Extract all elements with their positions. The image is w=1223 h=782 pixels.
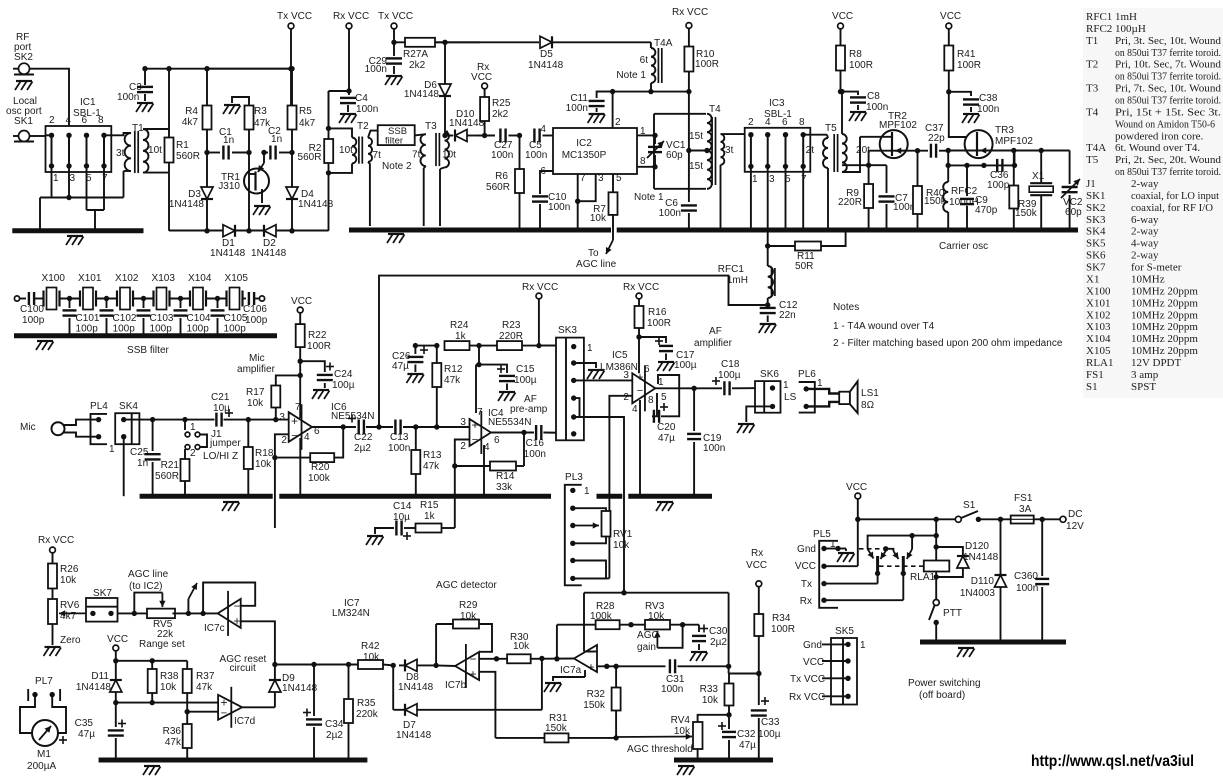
- ground bus agc right: [674, 758, 773, 763]
- svg-text:R24: R24: [450, 320, 469, 331]
- svg-text:1: 1: [584, 486, 590, 497]
- svg-text:X101: X101: [1086, 297, 1110, 309]
- svg-text:SK2: SK2: [14, 52, 33, 63]
- svg-text:100R: 100R: [695, 59, 719, 70]
- ground bus filter: [14, 333, 277, 338]
- svg-text:2-way: 2-way: [1131, 178, 1159, 190]
- ground: [588, 369, 604, 371]
- svg-text:560R: 560R: [155, 471, 179, 482]
- ground: [16, 80, 32, 82]
- svg-text:5: 5: [661, 392, 667, 403]
- svg-text:C8: C8: [867, 91, 880, 102]
- svg-text:47µ: 47µ: [392, 361, 409, 372]
- svg-text:D110: D110: [971, 576, 995, 587]
- svg-text:3t: 3t: [116, 148, 125, 159]
- svg-text:33k: 33k: [496, 482, 513, 493]
- svg-text:100n: 100n: [1016, 583, 1038, 594]
- svg-text:IC3: IC3: [769, 98, 785, 109]
- svg-text:SK4: SK4: [119, 401, 138, 412]
- wire IC3 pin1 to bus: [750, 166, 752, 228]
- ground: [658, 361, 674, 363]
- svg-text:C15: C15: [516, 364, 535, 375]
- svg-text:100R: 100R: [771, 624, 795, 635]
- filter block SSB filter 1: [378, 125, 415, 145]
- wire T4 sec bottom: [720, 165, 722, 229]
- svg-text:IC5: IC5: [612, 350, 628, 361]
- svg-text:100n: 100n: [661, 684, 683, 695]
- svg-text:J1: J1: [1086, 178, 1096, 190]
- svg-text:10k: 10k: [590, 213, 607, 224]
- svg-text:AGC detector: AGC detector: [436, 580, 497, 591]
- svg-text:2: 2: [49, 115, 55, 126]
- svg-text:6: 6: [782, 117, 788, 128]
- svg-text:R12: R12: [444, 364, 463, 375]
- wire AF loop to RFC1: [379, 276, 765, 427]
- wire T1 to TR1 stage: [168, 69, 170, 129]
- ground: [67, 235, 83, 237]
- svg-text:AF: AF: [709, 326, 722, 337]
- svg-text:R15: R15: [420, 500, 439, 511]
- svg-text:gain: gain: [637, 642, 656, 653]
- svg-text:100n: 100n: [659, 208, 681, 219]
- svg-text:10k: 10k: [613, 540, 630, 551]
- svg-text:VCC: VCC: [291, 296, 312, 307]
- svg-text:100n: 100n: [977, 104, 999, 115]
- ground: [254, 205, 270, 207]
- svg-text:1n: 1n: [271, 134, 282, 145]
- svg-text:3: 3: [279, 412, 285, 423]
- svg-text:MPF102: MPF102: [879, 120, 917, 131]
- wire R42 row: [275, 664, 358, 666]
- svg-text:8: 8: [98, 115, 104, 126]
- svg-text:47k: 47k: [196, 682, 213, 693]
- svg-text:100k: 100k: [308, 473, 331, 484]
- svg-text:SK5: SK5: [1086, 238, 1106, 250]
- svg-text:VCC: VCC: [803, 657, 824, 668]
- arrow AGC threshold: [616, 736, 692, 739]
- svg-text:AGC line: AGC line: [576, 259, 617, 270]
- wire IC5 pin2 input: [609, 396, 632, 579]
- svg-text:47k: 47k: [423, 461, 440, 472]
- svg-text:X105: X105: [225, 273, 249, 284]
- wire SK3 pin3 to IC5: [574, 379, 633, 381]
- svg-text:amplifier: amplifier: [237, 364, 276, 375]
- ground bus left: [12, 228, 143, 233]
- svg-text:(to IC2): (to IC2): [129, 581, 163, 592]
- svg-text:RFC1: RFC1: [1086, 11, 1112, 23]
- svg-text:12V DPDT: 12V DPDT: [1131, 357, 1182, 369]
- wire SK3 pin2 gnd: [574, 363, 596, 368]
- svg-text:100µ: 100µ: [718, 370, 741, 381]
- svg-text:C30: C30: [709, 626, 728, 637]
- svg-text:100p: 100p: [187, 324, 210, 335]
- svg-text:560R: 560R: [298, 152, 322, 163]
- wire IC5 output: [655, 387, 722, 389]
- ground: [407, 373, 423, 375]
- ground: [137, 102, 153, 104]
- svg-text:SK4: SK4: [1086, 226, 1106, 238]
- svg-text:VCC: VCC: [846, 482, 867, 493]
- svg-text:T4: T4: [709, 104, 721, 115]
- resistor R1 560R: [143, 128, 169, 130]
- svg-text:coaxial, for LO input: coaxial, for LO input: [1131, 190, 1219, 202]
- svg-text:100n: 100n: [893, 202, 915, 213]
- svg-text:100p: 100p: [113, 324, 136, 335]
- svg-text:100R: 100R: [849, 60, 873, 71]
- svg-text:−: −: [637, 385, 643, 397]
- svg-text:47k: 47k: [444, 375, 461, 386]
- svg-text:C102: C102: [113, 313, 137, 324]
- svg-text:2: 2: [281, 435, 287, 446]
- wire TR2 gate: [860, 136, 892, 138]
- svg-text:VCC: VCC: [795, 561, 816, 572]
- svg-text:3t: 3t: [725, 145, 734, 156]
- wire mixer bias rail: [204, 66, 209, 71]
- svg-text:150k: 150k: [1015, 208, 1038, 219]
- svg-text:coaxial, for RF I/O: coaxial, for RF I/O: [1131, 202, 1213, 214]
- ground: [850, 111, 866, 113]
- svg-text:7: 7: [477, 407, 483, 418]
- svg-text:150k: 150k: [583, 700, 606, 711]
- svg-text:3: 3: [460, 417, 466, 428]
- wire SK3 pin4-5 link: [574, 398, 580, 417]
- wire PL5 Rx: [824, 599, 903, 601]
- wire VCC rail to R24: [415, 345, 436, 347]
- op-amp IC6 NE5534N: [289, 412, 312, 442]
- svg-text:X102: X102: [115, 273, 139, 284]
- wire T5 sec top: [841, 92, 843, 134]
- svg-text:1N4148: 1N4148: [398, 682, 434, 693]
- ground: [367, 535, 383, 537]
- DC 12V terminal: [1060, 516, 1066, 522]
- svg-text:100n: 100n: [117, 92, 139, 103]
- svg-text:Tx VCC: Tx VCC: [790, 674, 825, 685]
- svg-text:X103: X103: [152, 273, 176, 284]
- svg-text:2: 2: [190, 448, 196, 459]
- svg-text:X104: X104: [1086, 333, 1111, 345]
- svg-text:R3: R3: [254, 106, 267, 117]
- svg-text:PL5: PL5: [813, 529, 831, 540]
- svg-text:1N4148: 1N4148: [251, 248, 287, 259]
- svg-text:PL7: PL7: [35, 676, 53, 687]
- svg-text:RFC2: RFC2: [1086, 23, 1112, 35]
- relay contacts RLA1: [868, 536, 937, 549]
- wire RV1 top: [573, 508, 606, 511]
- svg-text:R21: R21: [161, 460, 180, 471]
- svg-text:100n: 100n: [566, 103, 588, 114]
- svg-text:Rx: Rx: [800, 596, 812, 607]
- ground: [388, 233, 404, 235]
- wire RV3 wiper: [656, 631, 658, 648]
- svg-text:1: 1: [783, 380, 789, 391]
- svg-text:J310: J310: [218, 181, 240, 192]
- svg-text:100n: 100n: [365, 64, 387, 75]
- svg-text:C33: C33: [761, 717, 780, 728]
- svg-text:560R: 560R: [176, 151, 200, 162]
- wire AGC loop top: [584, 592, 729, 594]
- svg-text:C14: C14: [393, 501, 412, 512]
- svg-text:100n: 100n: [524, 449, 546, 460]
- ground: [37, 340, 53, 342]
- svg-text:SK3: SK3: [558, 325, 577, 336]
- ground bus AF: [597, 494, 623, 499]
- svg-text:+: +: [587, 660, 594, 674]
- svg-text:X101: X101: [78, 273, 102, 284]
- wire top rail to TxVCC: [145, 68, 291, 70]
- wire IC2 pin1: [637, 134, 655, 136]
- wire T5 sec bottom to TR2 gate: [842, 137, 860, 172]
- svg-text:C106: C106: [243, 304, 267, 315]
- wire top rail: [597, 91, 689, 93]
- svg-text:IC7d: IC7d: [234, 716, 255, 727]
- wire IC3 pin8 to T5: [803, 134, 827, 136]
- svg-text:R6: R6: [495, 171, 508, 182]
- svg-text:2k2: 2k2: [492, 109, 509, 120]
- svg-text:8: 8: [640, 156, 646, 167]
- svg-text:R4: R4: [185, 106, 198, 117]
- ground bus mic: [140, 494, 273, 499]
- svg-text:VCC: VCC: [471, 72, 492, 83]
- ground: [340, 113, 356, 115]
- svg-text:filter: filter: [385, 136, 403, 147]
- svg-text:IC7c: IC7c: [204, 623, 225, 634]
- svg-text:Note 1: Note 1: [634, 192, 664, 203]
- svg-text:R1: R1: [176, 140, 189, 151]
- svg-text:15t: 15t: [689, 131, 703, 142]
- svg-text:1: 1: [53, 173, 59, 184]
- wire IC4 out: [491, 432, 534, 434]
- svg-text:100p: 100p: [76, 324, 99, 335]
- svg-text:−: −: [469, 652, 476, 666]
- svg-text:100p: 100p: [245, 315, 268, 326]
- ground: [223, 501, 239, 503]
- svg-text:1: 1: [190, 422, 196, 433]
- svg-text:RLA1: RLA1: [910, 572, 936, 583]
- svg-text:R20: R20: [311, 462, 330, 473]
- svg-text:VCC: VCC: [832, 11, 853, 22]
- svg-text:NE5534N: NE5534N: [488, 417, 532, 428]
- svg-text:−: −: [233, 599, 240, 613]
- svg-text:1N4148: 1N4148: [404, 89, 440, 100]
- svg-text:100µ: 100µ: [674, 360, 697, 371]
- svg-text:2 - Filter matching based upon: 2 - Filter matching based upon 200 ohm i…: [833, 338, 1063, 349]
- svg-text:Notes: Notes: [833, 302, 859, 313]
- svg-text:C103: C103: [150, 313, 174, 324]
- svg-text:10k: 10k: [702, 695, 719, 706]
- svg-text:R41: R41: [957, 49, 976, 60]
- svg-text:4: 4: [304, 432, 310, 443]
- svg-text:LS1: LS1: [861, 388, 879, 399]
- svg-text:Rx VCC: Rx VCC: [789, 692, 825, 703]
- svg-text:amplifier: amplifier: [694, 338, 733, 349]
- svg-text:C4: C4: [355, 93, 368, 104]
- svg-text:4: 4: [540, 124, 546, 135]
- svg-text:10MHz 20ppm: 10MHz 20ppm: [1131, 345, 1198, 357]
- svg-text:5: 5: [616, 173, 622, 184]
- svg-text:100n: 100n: [388, 443, 410, 454]
- svg-text:+: +: [636, 370, 643, 384]
- svg-text:2: 2: [748, 117, 754, 128]
- ground: [963, 113, 979, 115]
- svg-text:Tx VCC: Tx VCC: [277, 11, 312, 22]
- svg-text:T2: T2: [357, 121, 369, 132]
- ground bus main: [349, 228, 611, 233]
- svg-text:1N4148: 1N4148: [76, 682, 112, 693]
- svg-text:X102: X102: [1086, 309, 1110, 321]
- wire R23 junction down: [478, 346, 480, 365]
- svg-text:T3: T3: [1086, 83, 1099, 95]
- svg-text:10k: 10k: [247, 398, 264, 409]
- wire PL5 gnd: [824, 548, 838, 550]
- svg-text:R36: R36: [163, 726, 182, 737]
- svg-text:X1: X1: [1032, 171, 1045, 182]
- wire IC7c + input: [241, 621, 275, 664]
- svg-text:1: 1: [817, 378, 823, 389]
- svg-text:C34: C34: [325, 719, 344, 730]
- svg-text:R35: R35: [357, 698, 376, 709]
- svg-text:1: 1: [109, 444, 115, 455]
- wire to IC7d + input: [116, 702, 218, 704]
- svg-text:1: 1: [860, 640, 866, 651]
- ground: [45, 646, 61, 648]
- wire IC6 pin7: [299, 375, 301, 418]
- svg-text:T3: T3: [425, 121, 437, 132]
- svg-text:8: 8: [648, 395, 654, 406]
- svg-text:1N4148: 1N4148: [396, 730, 432, 741]
- svg-text:Rx VCC: Rx VCC: [333, 11, 369, 22]
- wire TR3 source row: [948, 150, 1069, 152]
- svg-text:VCC: VCC: [107, 634, 128, 645]
- svg-text:4k7: 4k7: [182, 117, 199, 128]
- wire IC2 pins 7,3 gnd: [578, 174, 596, 201]
- svg-text:RV1: RV1: [613, 529, 633, 540]
- svg-text:R25: R25: [492, 98, 511, 109]
- wire coil to PTT: [935, 572, 937, 600]
- svg-text:X1: X1: [1086, 273, 1099, 285]
- wire IC7b - input row: [479, 658, 496, 660]
- ground: [657, 501, 673, 503]
- svg-text:7t: 7t: [373, 150, 382, 161]
- svg-text:100µ: 100µ: [758, 729, 781, 740]
- svg-text:(off board): (off board): [919, 690, 965, 701]
- svg-text:Pri, 10t. Sec, 7t. Wound: Pri, 10t. Sec, 7t. Wound: [1115, 59, 1222, 71]
- wire IC3 pin5 pin7: [785, 166, 787, 228]
- wire C31 to R33 node: [678, 665, 729, 667]
- svg-text:RV6: RV6: [60, 600, 80, 611]
- terminal filter in: [14, 296, 19, 301]
- svg-text:8: 8: [799, 117, 805, 128]
- svg-text:jumper: jumper: [209, 438, 241, 449]
- wire IC7b + input: [479, 672, 495, 738]
- svg-text:3: 3: [769, 174, 775, 185]
- svg-text:R32: R32: [587, 689, 606, 700]
- svg-text:2-way: 2-way: [1131, 226, 1159, 238]
- svg-text:D120: D120: [965, 541, 989, 552]
- svg-text:FS1: FS1: [1086, 369, 1104, 381]
- svg-text:PL6: PL6: [798, 369, 816, 380]
- svg-text:R27A: R27A: [403, 49, 428, 60]
- svg-text:Gnd: Gnd: [803, 640, 822, 651]
- wire pin2 loop: [455, 440, 470, 529]
- svg-text:FS1: FS1: [1014, 493, 1033, 504]
- svg-text:R17: R17: [246, 387, 265, 398]
- svg-text:on 850ui T37 ferrite toroid.: on 850ui T37 ferrite toroid.: [1115, 166, 1221, 178]
- svg-text:4: 4: [632, 404, 638, 415]
- svg-text:Range set: Range set: [139, 639, 185, 650]
- ground: [691, 651, 707, 653]
- svg-text:1: 1: [752, 174, 758, 185]
- svg-text:2: 2: [615, 117, 621, 128]
- svg-text:220R: 220R: [838, 197, 862, 208]
- wire mic line: [124, 419, 215, 421]
- svg-text:10MHz 20ppm: 10MHz 20ppm: [1131, 333, 1198, 345]
- svg-text:IC2: IC2: [576, 138, 592, 149]
- svg-text:T2: T2: [1086, 59, 1098, 71]
- ground bus power: [920, 640, 1066, 645]
- svg-text:C20: C20: [657, 422, 676, 433]
- svg-text:AGC threshold: AGC threshold: [627, 744, 693, 755]
- svg-text:SPST: SPST: [1131, 381, 1156, 393]
- svg-text:PL4: PL4: [90, 401, 108, 412]
- svg-text:S1: S1: [1086, 381, 1098, 393]
- svg-text:R18: R18: [255, 448, 274, 459]
- svg-text:Gnd: Gnd: [797, 544, 816, 555]
- svg-text:Mic: Mic: [249, 353, 265, 364]
- svg-text:Note 2: Note 2: [382, 161, 412, 172]
- svg-text:C38: C38: [979, 93, 998, 104]
- svg-text:http://www.qsl.net/va3iul: http://www.qsl.net/va3iul: [1031, 753, 1194, 770]
- svg-text:SK1: SK1: [14, 116, 33, 127]
- svg-text:7: 7: [102, 173, 108, 184]
- wire RV5 to IC7c: [172, 612, 217, 614]
- svg-text:6: 6: [644, 364, 650, 375]
- svg-text:Tx: Tx: [801, 579, 812, 590]
- svg-text:X103: X103: [1086, 321, 1111, 333]
- wire IC6 output: [312, 426, 356, 428]
- svg-text:SSB filter: SSB filter: [127, 345, 170, 356]
- wire IC5 pin4 gnd: [639, 400, 641, 496]
- wire TxVCC rail down: [288, 66, 293, 71]
- wire SK3 pin5 to AGC det: [580, 417, 625, 593]
- svg-text:T4A: T4A: [1086, 142, 1106, 154]
- parts list table: [1083, 8, 1223, 398]
- svg-text:R23: R23: [502, 320, 521, 331]
- wire IC7a + row: [597, 665, 666, 667]
- svg-text:C101: C101: [76, 313, 100, 324]
- wire RF input: [40, 69, 69, 136]
- svg-text:RFC2: RFC2: [951, 186, 978, 197]
- svg-text:3: 3: [623, 370, 629, 381]
- wire RV1 wiper: [573, 525, 599, 527]
- svg-text:C24: C24: [334, 369, 353, 380]
- svg-text:T5: T5: [825, 123, 837, 134]
- svg-text:R13: R13: [423, 450, 442, 461]
- svg-text:R42: R42: [361, 641, 380, 652]
- svg-text:To: To: [588, 248, 599, 259]
- svg-text:7t: 7t: [412, 150, 421, 161]
- wire IC7a gnd stub: [584, 670, 586, 677]
- IC2 MC1350P: [553, 128, 637, 174]
- svg-text:6: 6: [82, 115, 88, 126]
- svg-text:Rx VCC: Rx VCC: [672, 7, 708, 18]
- wire T3 sec to D10 row: [445, 132, 454, 136]
- svg-text:100n: 100n: [703, 443, 725, 454]
- wire modulator bottom row: [169, 230, 329, 232]
- svg-text:R5: R5: [299, 106, 312, 117]
- svg-text:R34: R34: [772, 613, 791, 624]
- svg-text:Note 1: Note 1: [616, 70, 646, 81]
- svg-text:6t: 6t: [640, 55, 649, 66]
